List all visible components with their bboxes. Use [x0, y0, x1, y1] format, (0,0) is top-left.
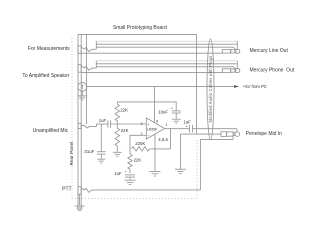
jack J2 (To Amplified Speaker) [78, 65, 96, 73]
wire +5V rail [117, 101, 176, 103]
wire C5 to plug P3 tip [193, 128, 237, 130]
capacitor C4 10uF (supply bypass) [171, 102, 181, 113]
wire J2 tip run [96, 63, 237, 65]
wire output riser [170, 129, 172, 149]
plug P3 (Penelope Mid In) [221, 132, 240, 137]
wire plug P2 tip drop [236, 61, 238, 69]
svg-text:Penelope Mid In: Penelope Mid In [246, 131, 282, 137]
power connector CN1 (coax, on rear panel) [78, 82, 87, 91]
label: C5 1uF [183, 120, 191, 125]
wire J3 tip riser [95, 124, 97, 127]
svg-text:To Amplified Speaker: To Amplified Speaker [22, 73, 69, 79]
ground (R2) [113, 152, 122, 156]
svg-text:LM358: LM358 [147, 127, 157, 131]
capacitor C2 .01uF (RF bypass) [97, 152, 106, 154]
svg-text:22K: 22K [120, 108, 128, 113]
svg-text:.01uF: .01uF [83, 149, 94, 154]
wire PTT run [96, 189, 200, 191]
resistor R1 22K (bias upper) [115, 102, 119, 124]
wire PTT to P3 ring [200, 138, 233, 140]
label: R3 220K [135, 141, 145, 146]
plug P2 (Mercury Phone Out) [222, 69, 239, 73]
svg-text:1uF: 1uF [99, 118, 107, 123]
wire pin 2 feedback loop [130, 135, 146, 149]
wire +5V riser to op-amp V+ (pin 8) [154, 87, 156, 123]
ground (J4 sleeve) [75, 206, 85, 210]
ground (C2) [97, 159, 105, 163]
capacitor C5 1uF (output coupling) [185, 125, 192, 133]
label: R2 22K [121, 128, 129, 133]
rear panel (double vertical line) [78, 34, 81, 210]
label: PTT [62, 186, 71, 192]
resistor R2 22K (bias lower) [115, 124, 119, 152]
cable bundle (modified audio cables) [207, 39, 214, 140]
capacitor C3 1uF (gain DC block) [125, 170, 135, 177]
label: C1 1uF [99, 118, 107, 123]
label: Unamplified Mic [33, 128, 69, 134]
wire J3 tip run [96, 123, 108, 125]
wire plug P1 tip drop [236, 41, 238, 49]
node +5V arrow [234, 85, 239, 88]
svg-text:3: 3 [141, 122, 143, 126]
jack J1 (For Measurements) [78, 46, 96, 54]
svg-text:8: 8 [156, 119, 158, 123]
ground (power connector shell) [77, 96, 87, 100]
label: C4 10uF [158, 110, 168, 115]
chassis dashed outline (bottom) [72, 197, 197, 199]
wire CN1 shell to ground [81, 91, 83, 95]
chassis dashed outline (left side) [71, 38, 73, 198]
wire J2 ring run [96, 66, 233, 68]
svg-text:Mercury Phone Out: Mercury Phone Out [250, 68, 295, 74]
svg-text:Small Prototyping Board: Small Prototyping Board [113, 25, 167, 31]
svg-text:For Measurements: For Measurements [28, 46, 70, 52]
wire +5V run [87, 86, 235, 88]
chassis dashed outline (right riser) [196, 139, 198, 198]
svg-text:22K: 22K [134, 158, 142, 163]
svg-text:Mercury Line Out: Mercury Line Out [250, 48, 289, 54]
wire P3 sleeve riser [180, 134, 182, 169]
wire pin 4 to ground [154, 134, 156, 171]
svg-text:Unamplified Mic: Unamplified Mic [33, 128, 69, 134]
wire P3 sleeve return [181, 133, 222, 135]
label: pins 4,5,6 [158, 137, 168, 142]
svg-text:Modified Audio Cables with Plu: Modified Audio Cables with Plugs [208, 56, 213, 123]
wire J1 sleeve run [81, 52, 222, 54]
wire J1 tip riser [95, 41, 97, 49]
wire C3 to ground [129, 177, 131, 180]
resistor R4 22K (gain) [128, 149, 132, 173]
svg-text:220K: 220K [135, 141, 145, 146]
svg-text:+5V from PC: +5V from PC [243, 84, 267, 89]
svg-text:10uF: 10uF [158, 110, 168, 115]
plug P1 (Mercury Line Out) [222, 49, 239, 53]
wire J1 shield run [96, 40, 237, 42]
capacitor C1 1uF (mic coupling) [108, 120, 111, 127]
wire R3 to output riser [149, 148, 170, 150]
resistor R3 220K (feedback) [132, 147, 150, 151]
pin 1 label [165, 123, 167, 127]
ground (op-amp pin 4) [150, 172, 161, 176]
wire J1 tip run [96, 43, 237, 45]
label: For Measurements [28, 46, 70, 52]
svg-text:1: 1 [165, 123, 167, 127]
label: To Amplified Speaker [22, 73, 69, 79]
svg-text:Rear Panel: Rear Panel [69, 142, 74, 165]
svg-text:PTT: PTT [62, 186, 71, 192]
wire plug P3 tip drop [236, 129, 238, 132]
wire J2 sleeve run [81, 71, 222, 73]
svg-text:1uF: 1uF [183, 120, 191, 125]
wire .01uF drop [100, 124, 102, 152]
svg-text:4,5,6: 4,5,6 [158, 137, 168, 142]
wire P3 ring rise [232, 136, 234, 139]
label: C2 .01uF [83, 149, 94, 154]
svg-text:1uF: 1uF [114, 171, 122, 176]
ground (C4) [172, 119, 181, 123]
op-amp U1 LM358 [146, 118, 164, 139]
wire C1 to bias node [111, 123, 147, 125]
wire J2 tip riser [95, 61, 97, 68]
label: C3 1uF [114, 171, 122, 176]
wire J2 shield run [96, 60, 237, 62]
prototyping board outline [78, 34, 197, 134]
label: R1 22K [120, 108, 128, 113]
svg-text:22K: 22K [121, 128, 129, 133]
jack J3 (Unamplified Mic) [78, 123, 96, 128]
wire op-amp output [165, 128, 190, 130]
wire plug P2 ring drop [233, 67, 235, 69]
pin 2 label [141, 132, 143, 136]
label: Rear Panel [69, 142, 74, 165]
label: Mercury Line Out [250, 48, 289, 54]
jack J4 (PTT) [78, 187, 96, 195]
wire J1 ring run [96, 46, 233, 48]
label: Mercury Phone Out [250, 68, 295, 74]
wire J4 sleeve drop [79, 194, 81, 206]
wire PTT riser [199, 139, 201, 190]
pin 3 label [141, 122, 143, 126]
label: +5V from PC [243, 84, 267, 89]
pin 8 label [156, 119, 158, 123]
label: Small Prototyping Board [113, 25, 167, 31]
svg-text:+: + [185, 125, 187, 129]
wire C4 to ground [175, 113, 177, 119]
ground (C3) [125, 180, 136, 184]
label: Penelope Mid In [246, 131, 282, 137]
ground (P3 sleeve) [175, 169, 186, 173]
wire C2 to ground [100, 154, 102, 159]
wire plug P1 ring drop [233, 47, 235, 49]
label: R4 22K [134, 158, 142, 163]
